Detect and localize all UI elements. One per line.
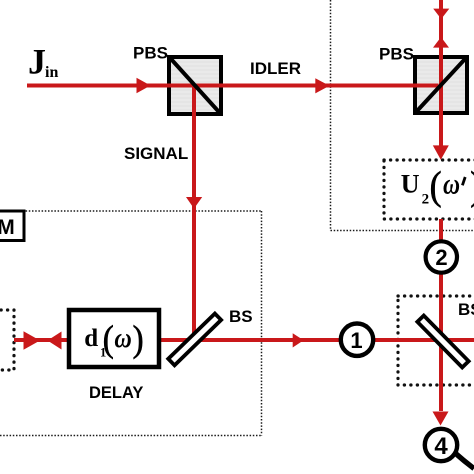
svg-text:PBS: PBS [379,45,414,64]
wire: signal beam down from PBS1 to beam splitter BS1 (x=194) [192,86,196,210]
dotted box M region: top border [0,210,262,212]
dotted box: top-right apparatus region border (bottom side) [331,230,474,232]
svg-text:d: d [84,325,98,352]
svg-text:BS: BS [229,307,253,326]
beam splitter BS2 (output, 135-degree plate) [417,316,468,368]
delay operator box d1(w) [69,310,159,367]
PBS1 diagonal interface [171,59,219,112]
svg-text:PBS: PBS [133,44,168,63]
label U2(w') inside dotted operator box [401,163,474,208]
dotted box M region: bottom border [0,435,262,437]
arrowhead: downward at top of PBS2 line [433,9,449,19]
node 1 (circled) [341,324,373,356]
wire: idler vertical line at PBS2 (x=441) top section [439,0,443,146]
node 2 (circled) [426,241,457,272]
dotted box M region: right border [261,211,263,436]
svg-text:4: 4 [434,433,448,460]
arrowhead: input beam toward PBS1 [137,78,151,93]
arrowhead: signal down into M box [186,197,202,209]
svg-text:IDLER: IDLER [250,59,301,78]
svg-text:(: ( [430,163,442,208]
svg-text:ω: ω [114,323,131,354]
arrowhead: beam down into detector node 4 [433,412,449,426]
arrowhead: beam toward node 1 [293,333,304,347]
arrowhead: down into U2 box [433,145,449,159]
svg-text:SIGNAL: SIGNAL [124,144,188,163]
svg-text:2: 2 [422,191,430,207]
arrowhead: left-pointing of facing pair at delay stub [48,332,62,350]
svg-text:M: M [0,216,15,239]
PBS cube U2 (right, in dotted interferometer box) body [415,57,467,113]
wire: input beam J_in to PBS1 and on to PBS2 (horizontal, y=85.5) [27,84,439,88]
dotted box: top-right apparatus region border (left side) [330,0,332,231]
label d1(w) inside delay box [84,319,143,360]
svg-text:U: U [401,170,420,199]
dotted box around U2(w') operator [384,160,474,219]
svg-text:J: J [28,42,46,82]
arrowhead: right-pointing of facing pair at delay stub [24,331,41,349]
M region label box [0,211,24,241]
small dotted box (left port stub) [0,310,14,370]
svg-text:(: ( [103,319,114,360]
svg-text:in: in [45,64,58,81]
beam splitter BS1 (45-degree plate in M box) [168,314,221,366]
node 4 (circled, detector) [425,429,457,461]
svg-text:BS: BS [458,300,474,319]
PBS2 diagonal interface [417,59,465,111]
wire: signal beam inside M box down to BS1 [192,209,196,342]
wire: delay arm horizontal beam (y=340) from left stub to output [14,338,474,342]
svg-text:1: 1 [350,328,362,353]
arrowhead: upward facing, above PBS2 [433,37,449,48]
svg-text:): ) [470,163,474,208]
detector 4 lead line to corner [455,453,474,469]
svg-text:DELAY: DELAY [89,384,143,402]
svg-text:): ) [133,319,144,360]
arrowhead: idler beam toward dotted box [315,78,329,93]
label J_in (input state) [28,42,58,82]
PBS cube U1 (signal/idler splitter) body [169,57,221,114]
svg-text:ω: ω [443,169,460,201]
dotted box around output beam splitter BS [398,296,474,385]
svg-text:2: 2 [435,245,447,270]
wire: idler beam from U2 box down to output BS and detector 4 [439,219,443,411]
